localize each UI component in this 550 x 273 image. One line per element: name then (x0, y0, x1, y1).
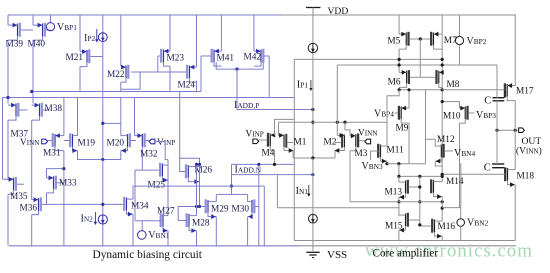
wire (200, 56, 202, 92)
wire (514, 101, 516, 170)
transistor M29 (200, 199, 229, 219)
wire (132, 186, 134, 199)
node (311, 173, 314, 176)
svg-text:IADD,N: IADD,N (235, 165, 262, 176)
wire (345, 122, 350, 136)
wire core frame bottom (294, 240, 515, 242)
node (441, 88, 444, 91)
wire (408, 123, 410, 164)
wire (275, 119, 295, 135)
node (30, 90, 33, 93)
node (441, 207, 444, 210)
svg-text:M12: M12 (437, 135, 455, 145)
wire (196, 231, 198, 246)
svg-text:VSS: VSS (327, 249, 347, 261)
wire (169, 15, 171, 51)
svg-text:(VINN): (VINN) (516, 146, 542, 157)
node (397, 162, 400, 165)
transistor M26 (186, 164, 212, 184)
transistor M24 (178, 65, 197, 91)
wire tail (78, 151, 121, 160)
node (397, 200, 400, 203)
wire (156, 142, 168, 160)
wire (398, 65, 400, 72)
wire IADD,P (237, 109, 313, 111)
wire row1 (294, 58, 442, 60)
wire (247, 217, 249, 246)
wire (32, 40, 34, 103)
wire (132, 214, 134, 246)
svg-text:M18: M18 (517, 172, 535, 182)
transistor M27 (157, 207, 175, 234)
svg-text:M32: M32 (140, 150, 158, 160)
wire (42, 203, 125, 205)
node (441, 100, 444, 103)
transistor M10 (443, 106, 475, 123)
wire (408, 90, 410, 108)
transistor M13 (385, 180, 420, 200)
node (62, 167, 65, 170)
wire OUT row (497, 129, 518, 131)
wire (312, 223, 314, 246)
transistor M28 (187, 213, 210, 233)
node (398, 58, 401, 61)
node (311, 121, 314, 124)
svg-text:M23: M23 (167, 54, 185, 64)
transistor M6 (388, 70, 421, 88)
source IN2 (94, 212, 108, 225)
wire (398, 164, 400, 177)
transistor M18 (505, 167, 534, 187)
wire M5/M7 gates (409, 37, 431, 77)
svg-text:VINN: VINN (20, 138, 40, 148)
port OUT (516, 128, 542, 157)
node (198, 163, 201, 166)
transistor M3 (350, 133, 368, 159)
wire (196, 81, 198, 92)
svg-text:VBP1: VBP1 (57, 22, 77, 33)
wire (167, 231, 169, 246)
wire (196, 165, 198, 216)
wire (387, 90, 399, 146)
node (195, 163, 198, 166)
wire M17 gate (442, 90, 505, 98)
wire (274, 150, 276, 164)
node (418, 223, 421, 226)
svg-text:M3: M3 (355, 149, 368, 159)
wire (441, 197, 443, 222)
wire (386, 161, 388, 164)
wire (79, 67, 81, 92)
wire VDD rail (left half) (8, 14, 282, 16)
wire (277, 175, 399, 208)
wire (220, 15, 222, 51)
transistor M34 (124, 197, 149, 217)
wire (46, 193, 48, 205)
wire (442, 102, 459, 109)
svg-text:M20: M20 (107, 139, 125, 149)
node (418, 200, 421, 203)
node row123 (101, 122, 121, 125)
wire (169, 66, 171, 91)
source IP1 (297, 15, 318, 91)
transistor M42 (244, 49, 270, 66)
svg-text:IN1: IN1 (296, 186, 309, 197)
node VBP4 label (374, 108, 394, 119)
svg-text:M15: M15 (385, 222, 403, 232)
node VBP3 label (476, 110, 496, 121)
transistor M39 (6, 23, 34, 50)
wire (399, 175, 442, 177)
wire (459, 102, 461, 109)
node VSS label (327, 249, 347, 261)
transistor M31 (43, 133, 64, 158)
port VINP (149, 138, 175, 148)
wire (31, 215, 33, 246)
transistor M4 (259, 133, 275, 159)
wire (140, 71, 187, 73)
wire (253, 15, 255, 51)
transistor M35 (8, 177, 28, 202)
wire (258, 164, 260, 245)
transistor M37 (8, 103, 28, 140)
svg-text:VBP2: VBP2 (467, 36, 487, 47)
transistor M41 (201, 49, 234, 66)
wire (31, 120, 33, 200)
transistor M20 (107, 133, 137, 153)
wire (7, 40, 9, 103)
node (385, 162, 388, 165)
wire row3 (399, 89, 442, 91)
wire (63, 151, 65, 246)
svg-text:M33: M33 (59, 179, 77, 189)
wire (514, 15, 516, 86)
svg-text:M1: M1 (294, 138, 307, 148)
svg-text:IN2: IN2 (81, 214, 94, 225)
port VINN core (358, 129, 378, 144)
wire (134, 170, 136, 221)
svg-text:M28: M28 (192, 219, 210, 229)
svg-text:VINP: VINP (157, 138, 175, 148)
wire (398, 87, 400, 89)
source IN1 (296, 185, 318, 223)
wire bus1 (32, 91, 201, 93)
node (257, 163, 260, 166)
svg-text:M17: M17 (516, 87, 534, 97)
svg-text:VBN2: VBN2 (467, 218, 489, 229)
transistor M5 (387, 32, 408, 49)
node (418, 185, 421, 188)
node (495, 129, 498, 132)
wire (121, 72, 140, 89)
wire (349, 151, 351, 202)
svg-text:IP1: IP1 (297, 80, 308, 91)
wire (167, 160, 169, 216)
source IP2 (84, 15, 107, 160)
wire (371, 151, 379, 160)
wire core frame left (293, 59, 295, 240)
block label (93, 249, 203, 261)
svg-text:VBP3: VBP3 (476, 110, 496, 121)
wire (312, 53, 314, 158)
svg-text:M34: M34 (131, 202, 149, 212)
node (418, 175, 421, 178)
node (195, 205, 198, 208)
wire (236, 69, 238, 109)
wire (216, 194, 247, 201)
wire VBN1 net (135, 221, 161, 231)
wire (279, 121, 388, 123)
wire (32, 15, 34, 25)
ground (306, 246, 319, 258)
transistor M21 (66, 49, 103, 66)
wire (398, 197, 400, 216)
node (441, 173, 444, 176)
capacitor C1 (484, 65, 504, 130)
transistor M22 (107, 65, 128, 82)
transistor M40 (28, 23, 51, 50)
wire (398, 230, 400, 240)
wire (231, 164, 233, 186)
wire bus2 (3, 98, 295, 104)
wire (7, 194, 9, 246)
svg-text:M13: M13 (385, 188, 403, 198)
svg-text:OUT: OUT (522, 136, 542, 147)
svg-text:VDD: VDD (328, 6, 349, 17)
wire (514, 185, 516, 241)
wire (180, 158, 200, 171)
wire (102, 160, 104, 215)
transistor M30 (232, 199, 259, 219)
svg-text:M27: M27 (157, 207, 175, 217)
wire (120, 15, 122, 66)
wire row2 (337, 64, 497, 66)
wire (47, 169, 64, 178)
svg-text:M40: M40 (28, 40, 46, 50)
transistor M17 (505, 83, 534, 100)
svg-text:M24: M24 (178, 81, 196, 91)
wire (387, 163, 426, 165)
svg-text:IADD,P: IADD,P (234, 100, 259, 111)
svg-text:VBN1: VBN1 (148, 230, 170, 241)
node (441, 200, 444, 203)
wire VSS rail (right half) (300, 245, 516, 247)
transistor M16 (420, 219, 456, 239)
wire VSS rail (left half) (9, 245, 300, 247)
wire IADD,N lower (232, 174, 313, 176)
svg-text:M26: M26 (195, 166, 213, 176)
source VBP1 (46, 15, 77, 33)
node (101, 203, 104, 206)
wire (79, 15, 81, 51)
svg-text:VINP: VINP (246, 130, 264, 140)
svg-text:C: C (484, 96, 491, 107)
wire (63, 98, 65, 136)
node (6, 96, 9, 99)
transistor M36 (20, 197, 41, 214)
transistor M15 (385, 213, 420, 233)
svg-text:M11: M11 (387, 146, 405, 156)
wire (216, 62, 263, 69)
wire (3, 98, 9, 180)
svg-text:M4: M4 (262, 149, 275, 159)
node (441, 63, 444, 66)
wire M18 gate (442, 168, 505, 175)
node (407, 88, 410, 91)
node (101, 158, 104, 161)
svg-text:M19: M19 (78, 139, 96, 149)
wire (312, 158, 314, 214)
wire IADD,N (232, 163, 295, 165)
svg-text:M8: M8 (447, 80, 460, 90)
svg-text:M16: M16 (438, 222, 456, 232)
transistor M8 (437, 70, 460, 90)
transistor M23 (158, 49, 185, 66)
capacitor C2 (484, 130, 505, 173)
transistor M33 (47, 176, 77, 193)
wire (459, 45, 461, 65)
svg-text:M31: M31 (43, 149, 61, 159)
watermark (365, 241, 533, 262)
node VDD label (328, 6, 349, 17)
transistor M32 (135, 133, 158, 170)
wire (420, 76, 435, 78)
wire (77, 98, 79, 136)
wire (442, 163, 461, 208)
port VINP core (246, 130, 264, 144)
wire (441, 236, 443, 240)
svg-text:M41: M41 (217, 54, 235, 64)
wire (120, 98, 122, 136)
wire (178, 207, 196, 221)
wire tail core (293, 156, 335, 159)
wire (426, 139, 436, 146)
VDD symbol (306, 8, 321, 16)
node (441, 58, 444, 61)
svg-text:Dynamic biasing circuit: Dynamic biasing circuit (93, 249, 203, 261)
svg-text:M30: M30 (232, 205, 250, 215)
wire (135, 169, 159, 171)
svg-text:M29: M29 (211, 205, 229, 215)
node (235, 68, 238, 71)
node IADD,P label (234, 100, 259, 111)
wire (199, 164, 201, 206)
wire (441, 15, 443, 182)
svg-text:Core amplifier: Core amplifier (373, 248, 439, 260)
wire (157, 56, 159, 72)
source VBP2 (455, 15, 486, 47)
wire row186 (133, 185, 264, 187)
node VBN4 label (454, 148, 476, 159)
transistor M38 (32, 103, 63, 120)
wire (425, 90, 427, 164)
svg-text:M6: M6 (388, 78, 401, 88)
node (514, 129, 517, 132)
block label (373, 248, 439, 260)
node VBN3 label (362, 161, 384, 172)
source VBN2 (457, 208, 489, 241)
svg-text:M42: M42 (244, 53, 262, 63)
node (398, 63, 401, 66)
node (311, 108, 314, 111)
wire (268, 56, 270, 98)
svg-text:M25: M25 (148, 181, 166, 191)
node (230, 185, 233, 188)
svg-text:VINN: VINN (358, 129, 378, 139)
wire (102, 224, 104, 246)
svg-text:M5: M5 (387, 37, 400, 47)
svg-text:VBN3: VBN3 (362, 161, 384, 172)
wire (231, 186, 233, 194)
wire (7, 15, 9, 25)
svg-text:M38: M38 (45, 104, 63, 114)
svg-text:M2: M2 (324, 138, 337, 148)
transistor M2 (324, 133, 345, 158)
wire (215, 217, 217, 246)
transistor M11 (378, 144, 404, 164)
wire (134, 98, 136, 136)
svg-text:C: C (484, 163, 491, 174)
svg-text:M22: M22 (107, 70, 125, 80)
svg-text:M9: M9 (396, 124, 409, 134)
svg-text:VBP4: VBP4 (374, 108, 394, 119)
wire (459, 123, 461, 208)
node (441, 175, 444, 178)
wire (419, 176, 421, 225)
wire (278, 122, 280, 135)
node (398, 88, 401, 91)
wire (120, 82, 122, 91)
wire (435, 161, 442, 166)
wire (398, 15, 400, 34)
wire (7, 120, 9, 179)
wire (398, 176, 400, 182)
source IN2 label (81, 214, 94, 225)
svg-text:M35: M35 (10, 192, 28, 202)
svg-text:M36: M36 (20, 203, 38, 213)
transistor M19 (64, 133, 96, 153)
transistor M14 (431, 177, 464, 199)
wire (398, 49, 400, 65)
wire (196, 15, 198, 67)
wire (179, 92, 181, 159)
node (198, 205, 201, 208)
svg-text:M10: M10 (443, 112, 461, 122)
svg-text:IP2: IP2 (84, 33, 95, 44)
node IADD,N label (235, 165, 262, 176)
transistor M1 (279, 133, 307, 158)
wire (336, 65, 338, 135)
svg-text:M21: M21 (66, 53, 84, 63)
transistor M12 (435, 135, 455, 164)
node (397, 175, 400, 178)
source VBN1 (138, 230, 170, 241)
wire row4 (350, 201, 442, 203)
wire (263, 186, 265, 246)
svg-text:VBN4: VBN4 (454, 148, 476, 159)
transistor M25 (148, 163, 169, 191)
node (343, 121, 346, 124)
transistor M9 (395, 106, 410, 134)
transistor M7 (431, 32, 457, 49)
node (273, 163, 276, 166)
port VINN (20, 138, 48, 148)
wire VDD rail (right half) (282, 14, 516, 16)
node (336, 121, 339, 124)
